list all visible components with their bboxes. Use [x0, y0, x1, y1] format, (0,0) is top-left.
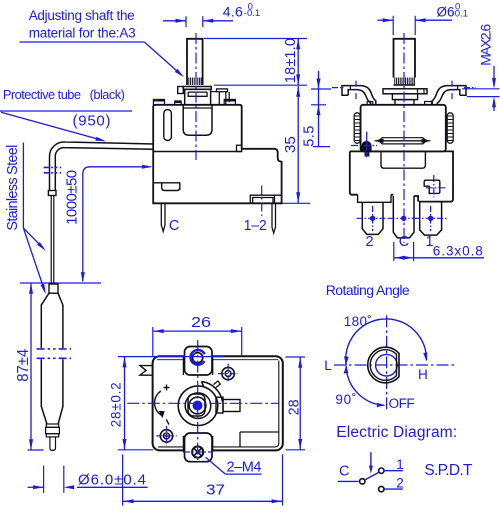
note: protective tube (black) [0, 87, 132, 144]
svg-text:180˚: 180˚ [344, 314, 372, 329]
right serrated clip [447, 113, 453, 144]
horizontal centerline [334, 364, 454, 366]
dimension 26 [153, 315, 242, 356]
svg-text:Electric Diagram:: Electric Diagram: [336, 424, 457, 441]
knob D inner [370, 350, 396, 381]
svg-text:90˚: 90˚ [335, 392, 356, 407]
bottom mounting tab [185, 433, 213, 462]
plus sign [164, 385, 170, 391]
svg-text:Rotating Angle: Rotating Angle [326, 282, 410, 298]
bottom-right terminal block [250, 195, 281, 203]
dimension diam6 0/-0.1 (right view shaft) [378, 1, 468, 35]
svg-text:26: 26 [191, 315, 211, 331]
screw top right [222, 367, 234, 379]
dimension 28+-0.2 [109, 357, 225, 450]
inner step bottom right [240, 432, 279, 447]
right view centerline [403, 33, 405, 243]
svg-text:-0.1: -0.1 [244, 8, 260, 19]
label recess [381, 151, 425, 168]
bulb break symbol [37, 348, 71, 350]
svg-text:1–2: 1–2 [244, 218, 267, 234]
right view: terminal 2 [357, 202, 389, 234]
knob D outer [368, 347, 399, 383]
svg-text:37: 37 [206, 482, 225, 498]
oval slot [164, 110, 172, 141]
node 2 [379, 486, 384, 491]
svg-text:87±4: 87±4 [15, 348, 32, 381]
dimension 18+-1.0 [204, 38, 307, 85]
dimension 37 [123, 454, 283, 505]
bare capillary [50, 196, 52, 285]
svg-text:Stainless Steel: Stainless Steel [5, 145, 21, 231]
inner channel lines [183, 356, 212, 452]
note 2-M4 [206, 457, 262, 475]
front view: main body outline [153, 105, 281, 233]
right view: washer stack [383, 89, 427, 105]
centerline through 1-2 terminal [261, 186, 263, 217]
svg-text:2: 2 [366, 234, 374, 250]
svg-text:C: C [399, 234, 409, 250]
svg-text:H: H [418, 367, 428, 382]
dimension diam6.0+-0.4 (bulb) [28, 466, 148, 493]
rotation arc with arrow [155, 391, 162, 416]
bottom-left tray [358, 195, 391, 203]
dimension MAX2.6 [462, 24, 500, 111]
blue shaft center [193, 401, 203, 411]
shaft square [188, 394, 205, 416]
svg-text:4.6: 4.6 [223, 4, 243, 20]
terminal pin 1-2 [272, 203, 276, 233]
capillary stub at left [140, 366, 153, 376]
inner wall lines [158, 361, 279, 447]
bulb tip crimp rings [46, 424, 58, 427]
note: stainless steel [5, 143, 47, 295]
boss circle [185, 393, 211, 419]
dimension 87+-4 [15, 283, 101, 450]
dimension 6.3x0.8 [394, 242, 484, 261]
svg-text:-0.1: -0.1 [452, 8, 468, 19]
protective tube end cap [48, 191, 56, 196]
svg-text:MAX2.6: MAX2.6 [477, 24, 493, 66]
svg-text:C: C [339, 464, 349, 480]
shaft knurl hatch [189, 78, 201, 86]
cam circle [178, 386, 218, 426]
node 1 [379, 468, 384, 473]
top mounting tab [185, 347, 213, 376]
svg-text:(950): (950) [73, 112, 111, 129]
temperature slot hexagon [379, 138, 427, 144]
front view: top rivet bumps [153, 99, 235, 105]
shaft hole circle [189, 397, 206, 414]
electric diagram [336, 424, 473, 492]
svg-text:1: 1 [396, 457, 404, 472]
svg-text:S.P.D.T: S.P.D.T [424, 462, 473, 479]
svg-text:6.3x0.8: 6.3x0.8 [433, 243, 483, 258]
tube break symbol [44, 166, 61, 168]
body mid parting line [153, 151, 242, 153]
svg-text:material for the:A3: material for the:A3 [29, 26, 136, 41]
front view: right terminal tab [211, 89, 230, 105]
svg-text:18±1.0: 18±1.0 [283, 38, 299, 83]
dimension 35 [282, 86, 310, 203]
bottom-left pocket [153, 183, 180, 191]
svg-text:28±0.2: 28±0.2 [109, 382, 124, 427]
common node [360, 479, 365, 484]
right connector tabs [216, 397, 223, 413]
front view centerline [195, 33, 197, 160]
front view: adjusting shaft [187, 39, 203, 85]
svg-text:2–M4: 2–M4 [227, 460, 262, 476]
sensing bulb [37, 284, 71, 450]
dimension 1000+-50 [63, 165, 152, 283]
bellows cup [183, 105, 212, 135]
svg-text:OFF: OFF [389, 396, 415, 411]
svg-text:2: 2 [396, 475, 404, 490]
vertical centerline [386, 315, 388, 409]
small latch box on right edge [237, 145, 242, 151]
right view: right mounting ear [432, 81, 476, 105]
knob blue circle [376, 354, 398, 376]
dimension 4.6 0/-0.1 [163, 1, 260, 27]
front view: capillary tube [44, 142, 154, 284]
front view: mounting bracket plate [178, 87, 212, 105]
svg-text:Adjusting shaft the: Adjusting shaft the [29, 8, 135, 23]
note: adjusting shaft label [20, 8, 186, 79]
right view: terminal 1 [414, 202, 447, 236]
rotating angle diagram [324, 282, 454, 411]
cam outer arc [202, 382, 223, 402]
upper 180 arc [346, 319, 427, 366]
svg-text:5.5: 5.5 [302, 126, 318, 147]
svg-text:L: L [324, 358, 332, 373]
minus tick [166, 420, 169, 425]
dimension 28 (right) [286, 357, 306, 450]
right view: lower housing [350, 151, 453, 202]
capillary joint blob [361, 141, 371, 157]
svg-text:Ø6.0±0.4: Ø6.0±0.4 [78, 472, 146, 489]
bottom view centerlines [127, 402, 279, 404]
screw bottom left [160, 430, 172, 442]
terminal pin C [161, 203, 165, 231]
svg-text:1000±50: 1000±50 [63, 170, 80, 225]
svg-text:35: 35 [283, 136, 299, 153]
keyhole block [424, 180, 440, 193]
bottom view: body [127, 340, 282, 462]
right view: left mounting ear [332, 81, 376, 105]
right view: top rivet bumps [367, 102, 431, 105]
collar below bracket [185, 89, 211, 105]
lower 90 arc [346, 366, 384, 405]
svg-text:Protective tube (black): Protective tube (black) [3, 87, 125, 102]
right view: upper housing [351, 105, 453, 158]
lever [365, 472, 379, 479]
svg-text:C: C [169, 218, 179, 234]
double-headed range arrow [376, 140, 430, 142]
left serrated clip [354, 113, 360, 144]
cam nub [214, 381, 221, 388]
right view: shaft [394, 39, 416, 85]
right view: terminal C [389, 196, 420, 238]
dimension 5.5 [302, 71, 332, 147]
actuation arrow [370, 452, 372, 466]
